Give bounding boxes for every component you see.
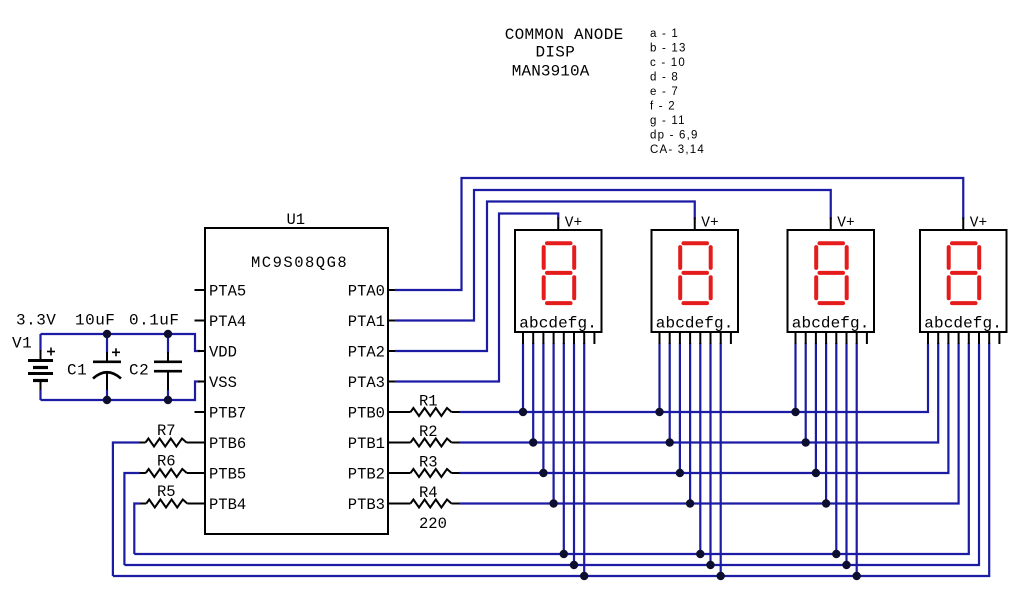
pin label VSS <box>209 374 237 392</box>
junction display 1 segment c <box>539 469 547 477</box>
label MC9S08QG8 part value <box>251 254 348 272</box>
svg-text:PTA5: PTA5 <box>209 282 246 300</box>
svg-text:b - 13: b - 13 <box>650 43 687 55</box>
wire VSS rail bottom <box>41 382 201 401</box>
wire display 3 pin f drop <box>845 343 847 565</box>
resistor R6 <box>138 469 205 477</box>
label 10uF value <box>75 312 115 330</box>
svg-text:V1: V1 <box>12 335 32 353</box>
wire R6 to segment bus <box>124 473 139 565</box>
label C1 <box>67 362 87 380</box>
pin stub VDD <box>198 350 205 352</box>
label R4 <box>419 484 438 502</box>
pin stub PTA4 <box>195 320 206 322</box>
svg-text:220: 220 <box>419 515 447 533</box>
label R6 <box>157 453 176 471</box>
svg-text:PTB0: PTB0 <box>348 404 385 422</box>
wire VDD rail top <box>41 334 201 351</box>
pin label PTB5 <box>209 465 246 483</box>
svg-text:C2: C2 <box>129 362 149 380</box>
svg-text:e - 7: e - 7 <box>650 86 679 98</box>
pin stub PTA5 <box>195 289 206 291</box>
label V+ display 3 <box>837 216 854 232</box>
resistor R3 <box>388 469 461 477</box>
wire display 1 pin e drop <box>563 343 565 554</box>
svg-text:V+: V+ <box>701 216 718 232</box>
pin label PTB6 <box>209 435 246 453</box>
wire display 1 pin g drop <box>583 343 585 576</box>
junction display 2 segment f <box>706 561 714 569</box>
junction display 2 segment d <box>686 499 694 507</box>
wire segment net d bus <box>460 343 959 504</box>
wire display 2 pin f drop <box>709 343 711 565</box>
svg-text:C1: C1 <box>67 362 87 380</box>
pin label PTA0 <box>348 282 385 300</box>
label R2 <box>419 423 438 441</box>
svg-text:R3: R3 <box>419 454 438 472</box>
7-segment display DS1 body <box>515 218 602 345</box>
svg-text:R1: R1 <box>419 393 438 411</box>
wire display 2 pin b drop <box>669 343 671 443</box>
svg-text:abcdefg.: abcdefg. <box>924 315 1002 333</box>
wire segment net e bus <box>134 343 969 554</box>
svg-text:CA- 3,14: CA- 3,14 <box>650 144 705 156</box>
junction VDD rail at C1 <box>103 330 111 338</box>
junction display 1 segment a <box>519 408 527 416</box>
svg-text:MAN3910A: MAN3910A <box>512 63 590 81</box>
junction display 2 segment e <box>696 550 704 558</box>
svg-text:PTA3: PTA3 <box>348 374 385 392</box>
wire display 3 pin d drop <box>825 343 827 504</box>
pin stub VSS <box>198 381 205 383</box>
svg-text:V+: V+ <box>837 216 854 232</box>
svg-text:d - 8: d - 8 <box>650 72 679 84</box>
svg-text:g - 11: g - 11 <box>650 115 686 127</box>
label 3.3V value <box>16 312 56 330</box>
wire display 1 pin c drop <box>542 343 544 473</box>
label abcdefg. pins display 4 <box>924 315 1002 333</box>
junction display 3 segment e <box>832 550 840 558</box>
wire display 2 pin c drop <box>679 343 681 473</box>
svg-text:R7: R7 <box>157 422 176 440</box>
wire display 3 pin g drop <box>856 343 858 576</box>
label 0.1uF value <box>129 312 180 330</box>
svg-text:PTB5: PTB5 <box>209 465 246 483</box>
svg-text:MC9S08QG8: MC9S08QG8 <box>251 254 348 272</box>
wire display 2 pin a drop <box>658 343 660 412</box>
junction display 1 segment f <box>570 561 578 569</box>
svg-text:a - 1: a - 1 <box>650 28 679 40</box>
wire segment net c bus <box>460 343 949 473</box>
label V+ display 1 <box>565 216 582 232</box>
label abcdefg. pins display 1 <box>519 315 597 333</box>
svg-text:R6: R6 <box>157 453 176 471</box>
svg-text:PTA4: PTA4 <box>209 313 246 331</box>
junction display 3 segment a <box>791 408 799 416</box>
svg-text:V+: V+ <box>565 216 582 232</box>
wire PTA1 to display 3 anode <box>388 190 831 321</box>
pin label PTB3 <box>348 496 385 514</box>
pin label PTA3 <box>348 374 385 392</box>
svg-text:10uF: 10uF <box>75 312 115 330</box>
wire display 1 pin a drop <box>522 343 524 412</box>
svg-text:PTB6: PTB6 <box>209 435 246 453</box>
wire display 2 pin e drop <box>699 343 701 554</box>
7-segment display DS3 body <box>788 218 875 345</box>
svg-text:c - 10: c - 10 <box>650 57 686 69</box>
svg-text:PTA1: PTA1 <box>348 313 385 331</box>
resistor R2 <box>388 439 461 447</box>
svg-text:PTB7: PTB7 <box>209 404 246 422</box>
battery V1 3.3V <box>28 334 55 400</box>
wire display 3 pin c drop <box>815 343 817 473</box>
wire segment net b bus <box>460 343 939 443</box>
wire segment net g bus <box>113 343 989 576</box>
svg-text:V+: V+ <box>970 216 987 232</box>
7-segment display DS2 body <box>652 218 739 345</box>
op-amp U1 MC9S08QG8 body <box>205 228 388 534</box>
wire segment net f bus <box>124 343 979 565</box>
svg-text:3.3V: 3.3V <box>16 312 56 330</box>
resistor R4 <box>388 500 461 508</box>
junction display 3 segment f <box>842 561 850 569</box>
svg-text:abcdefg.: abcdefg. <box>656 315 734 333</box>
label COMMON ANODE title line 1 <box>505 26 624 44</box>
junction display 2 segment a <box>655 408 663 416</box>
junction display 2 segment g <box>717 572 725 580</box>
capacitor C1 10uF polarized <box>93 334 121 400</box>
pin label PTB1 <box>348 435 385 453</box>
pin label PTB0 <box>348 404 385 422</box>
pin label PTA4 <box>209 313 246 331</box>
display pin-number table <box>650 28 705 156</box>
svg-text:dp - 6,9: dp - 6,9 <box>650 130 699 142</box>
svg-text:DISP: DISP <box>536 44 576 62</box>
pin label PTA2 <box>348 343 385 361</box>
resistor R5 <box>138 500 205 508</box>
pin label PTB2 <box>348 465 385 483</box>
label U1 reference designator <box>287 211 306 229</box>
svg-text:abcdefg.: abcdefg. <box>792 315 870 333</box>
junction VSS rail at C1 <box>103 396 111 404</box>
digit 8 segments display 1 <box>544 243 575 303</box>
wire display 3 pin b drop <box>805 343 807 443</box>
resistor R7 <box>138 439 206 447</box>
digit 8 segments display 4 <box>949 243 980 303</box>
svg-text:PTB3: PTB3 <box>348 496 385 514</box>
junction display 1 segment e <box>560 550 568 558</box>
junction display 3 segment c <box>812 469 820 477</box>
label 220 resistor value <box>419 515 447 533</box>
wire display 1 pin b drop <box>532 343 534 443</box>
pin stub PTB7 <box>195 411 206 413</box>
label R5 <box>157 483 176 501</box>
svg-text:U1: U1 <box>287 211 306 229</box>
svg-text:PTB1: PTB1 <box>348 435 385 453</box>
pin label PTA1 <box>348 313 385 331</box>
svg-text:abcdefg.: abcdefg. <box>519 315 597 333</box>
wire display 3 pin e drop <box>835 343 837 554</box>
pin label VDD <box>209 343 237 361</box>
wire R5 to segment bus <box>134 504 140 555</box>
capacitor C2 0.1uF <box>154 334 182 400</box>
svg-text:COMMON ANODE: COMMON ANODE <box>505 26 624 44</box>
wire display 2 pin g drop <box>720 343 722 576</box>
label V+ display 2 <box>701 216 718 232</box>
svg-text:R4: R4 <box>419 484 438 502</box>
junction display 3 segment g <box>853 572 861 580</box>
label V1 <box>12 335 32 353</box>
junction display 2 segment b <box>666 438 674 446</box>
svg-text:PTA2: PTA2 <box>348 343 385 361</box>
svg-text:VSS: VSS <box>209 374 237 392</box>
wire PTA2 to display 2 anode <box>388 202 695 352</box>
junction display 1 segment d <box>549 499 557 507</box>
label C2 <box>129 362 149 380</box>
label R1 <box>419 393 438 411</box>
resistor R1 <box>388 408 461 416</box>
label MAN3910A part number <box>512 63 590 81</box>
label DISP title line 2 <box>536 44 576 62</box>
7-segment display DS4 body <box>920 218 1007 345</box>
label R7 <box>157 422 176 440</box>
wire display 3 pin a drop <box>794 343 796 412</box>
wire display 1 pin f drop <box>573 343 575 565</box>
svg-text:0.1uF: 0.1uF <box>129 312 180 330</box>
junction display 2 segment c <box>676 469 684 477</box>
label R3 <box>419 454 438 472</box>
junction display 3 segment d <box>822 499 830 507</box>
svg-text:PTB2: PTB2 <box>348 465 385 483</box>
wire segment net a bus <box>460 343 929 412</box>
junction display 1 segment g <box>580 572 588 580</box>
wire PTA0 to display 4 anode <box>388 178 963 290</box>
digit 8 segments display 2 <box>680 243 711 303</box>
pin label PTB7 <box>209 404 246 422</box>
svg-text:VDD: VDD <box>209 343 237 361</box>
svg-text:f - 2: f - 2 <box>650 101 676 113</box>
svg-text:R5: R5 <box>157 483 176 501</box>
pin label PTA5 <box>209 282 246 300</box>
svg-text:PTA0: PTA0 <box>348 282 385 300</box>
svg-text:PTB4: PTB4 <box>209 496 246 514</box>
label abcdefg. pins display 3 <box>792 315 870 333</box>
pin label PTB4 <box>209 496 246 514</box>
wire R7 to segment bus <box>113 443 140 577</box>
junction VSS rail at C2 <box>164 396 172 404</box>
junction VDD rail at C2 <box>164 330 172 338</box>
wire display 1 pin d drop <box>552 343 554 504</box>
junction display 1 segment b <box>529 438 537 446</box>
label V+ display 4 <box>970 216 987 232</box>
label abcdefg. pins display 2 <box>656 315 734 333</box>
digit 8 segments display 3 <box>816 243 847 303</box>
junction display 3 segment b <box>802 438 810 446</box>
wire PTA3 to display 1 anode <box>388 214 558 382</box>
wire display 2 pin d drop <box>689 343 691 504</box>
svg-text:R2: R2 <box>419 423 438 441</box>
